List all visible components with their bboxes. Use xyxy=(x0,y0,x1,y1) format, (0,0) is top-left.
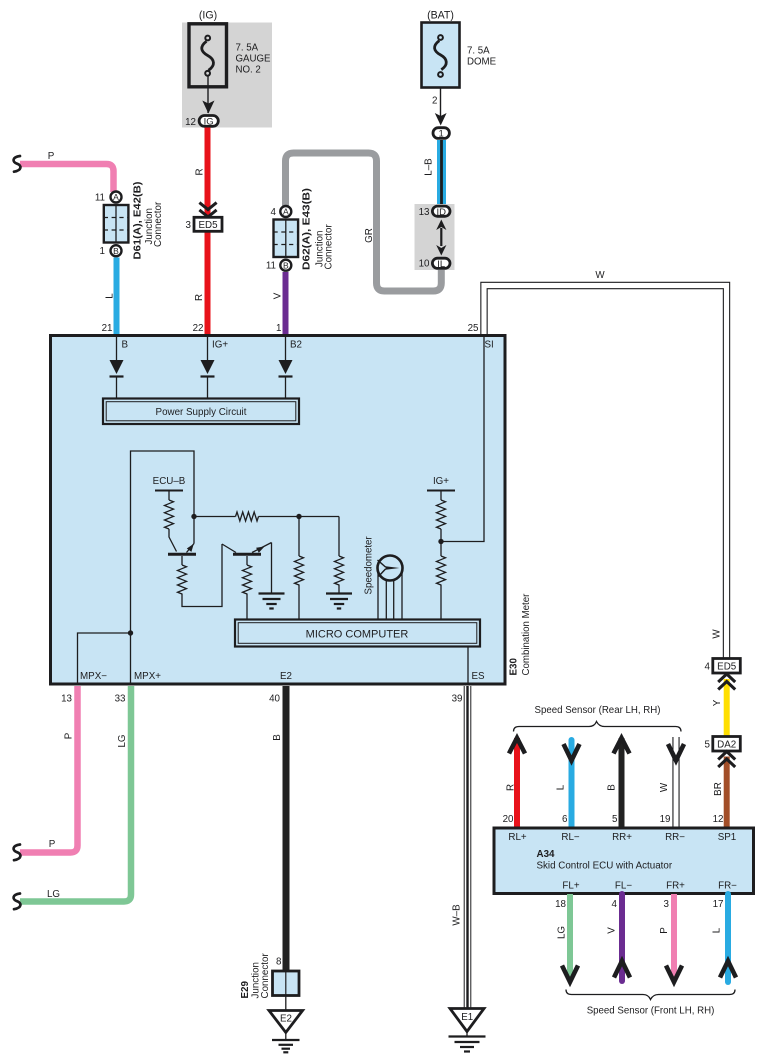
wire LG (green) sensor FL+ with down arrow xyxy=(562,894,578,982)
svg-text:18: 18 xyxy=(555,899,566,910)
svg-text:P: P xyxy=(49,839,56,850)
svg-text:SI: SI xyxy=(485,340,494,351)
svg-text:V: V xyxy=(607,927,618,934)
svg-text:GAUGE: GAUGE xyxy=(236,54,272,65)
svg-text:Combination Meter: Combination Meter xyxy=(521,593,532,676)
svg-text:LG: LG xyxy=(47,889,60,900)
wire GR (gray) from IL to junction connector D62 pin A xyxy=(286,153,442,291)
brace rear sensors xyxy=(514,722,682,732)
svg-text:D61(A), E42(B): D61(A), E42(B) xyxy=(133,182,144,260)
svg-text:Connector: Connector xyxy=(153,201,164,247)
svg-text:W–B: W–B xyxy=(452,904,463,926)
svg-text:A34: A34 xyxy=(537,849,556,860)
svg-text:E2: E2 xyxy=(280,1014,292,1025)
wire L (blue) sensor RL- with down arrow xyxy=(564,740,580,828)
ground E1 xyxy=(449,1009,486,1052)
node junction dot R4 right xyxy=(296,514,301,519)
svg-text:39: 39 xyxy=(452,694,463,705)
svg-text:4: 4 xyxy=(271,207,277,218)
svg-text:DA2: DA2 xyxy=(717,740,736,751)
wire L (blue) D61 pin B to E30 pin 21 xyxy=(114,258,120,336)
svg-text:ECU–B: ECU–B xyxy=(153,476,186,487)
resistor R7 (IG+ upper) xyxy=(437,500,446,556)
svg-text:B: B xyxy=(607,784,618,791)
svg-text:FR+: FR+ xyxy=(666,881,685,892)
ground G2 xyxy=(326,594,352,609)
svg-text:Speedometer: Speedometer xyxy=(364,536,375,595)
label D62(A), E43(B) Junction Connector xyxy=(302,188,335,270)
svg-text:LG: LG xyxy=(117,734,128,747)
transistor Q1 xyxy=(168,529,196,554)
svg-text:IG+: IG+ xyxy=(212,340,228,351)
fuse background (IG) gray panel xyxy=(182,23,272,128)
wire MPX- internal xyxy=(78,633,131,683)
svg-text:NO. 2: NO. 2 xyxy=(236,65,261,76)
wire B (black) E2 pin 40 to E29 xyxy=(283,686,290,970)
wire L-B (blue-black) terminal 1 to ID xyxy=(437,140,446,206)
svg-text:FL−: FL− xyxy=(615,881,632,892)
wire ES internal xyxy=(467,647,469,684)
svg-text:MPX−: MPX− xyxy=(80,671,107,682)
resistor R2 (Q1 base) xyxy=(178,556,187,594)
brace front sensors xyxy=(566,990,735,1000)
double arrow between ID and IL xyxy=(436,220,446,256)
svg-text:13: 13 xyxy=(419,207,430,218)
svg-text:MICRO COMPUTER: MICRO COMPUTER xyxy=(306,629,409,641)
svg-text:8: 8 xyxy=(276,957,282,968)
svg-text:7. 5A: 7. 5A xyxy=(236,43,259,54)
svg-text:11: 11 xyxy=(266,261,276,272)
svg-text:2: 2 xyxy=(432,96,437,107)
fuse F1 GAUGE NO.2 xyxy=(189,24,227,87)
terminal oval ID pin 13 xyxy=(419,206,450,218)
ground G1 xyxy=(259,594,285,609)
svg-text:33: 33 xyxy=(115,694,126,705)
svg-text:D62(A), E43(B): D62(A), E43(B) xyxy=(302,188,313,270)
svg-text:R: R xyxy=(195,168,206,175)
svg-text:5: 5 xyxy=(612,814,618,825)
svg-text:B: B xyxy=(113,246,119,256)
speedometer gauge symbol xyxy=(378,556,403,621)
svg-text:19: 19 xyxy=(660,814,671,825)
resistor R5 to micro computer xyxy=(295,517,304,621)
svg-text:6: 6 xyxy=(562,814,568,825)
resistor R4 horizontal xyxy=(194,512,299,521)
svg-text:11: 11 xyxy=(95,193,105,204)
svg-text:3: 3 xyxy=(664,899,670,910)
wire Y (yellow) ED5 to DA2 xyxy=(724,679,730,738)
wire Q2 emitter to ground xyxy=(271,543,273,594)
svg-text:Y: Y xyxy=(712,699,723,706)
svg-text:W: W xyxy=(595,270,605,281)
svg-text:B2: B2 xyxy=(290,340,302,351)
svg-text:4: 4 xyxy=(612,899,618,910)
micro computer box xyxy=(235,620,480,647)
svg-text:(IG): (IG) xyxy=(199,10,217,22)
ground E2 xyxy=(269,1011,303,1053)
wire L (blue) sensor FR- with up arrow xyxy=(720,894,736,982)
svg-text:SP1: SP1 xyxy=(718,832,737,843)
svg-text:E2: E2 xyxy=(280,671,292,682)
ECU-B rail xyxy=(153,476,186,500)
gray panel ID/IL xyxy=(415,204,455,270)
svg-text:RR+: RR+ xyxy=(612,832,632,843)
svg-text:12: 12 xyxy=(185,117,196,128)
junction connector D61(A) E42(B) xyxy=(95,192,129,258)
wire MPX+ internal with junction dot xyxy=(128,630,133,683)
svg-text:R: R xyxy=(506,784,517,791)
svg-text:RL+: RL+ xyxy=(508,832,527,843)
svg-text:13: 13 xyxy=(61,694,72,705)
connector ED5 pin 3 chevrons xyxy=(199,203,216,217)
svg-text:1: 1 xyxy=(100,246,105,257)
wire W from E30 pin 25 to ED5 pin 4 (white, double line) xyxy=(484,286,727,661)
wire SI internal to IG+ node xyxy=(441,337,484,542)
svg-text:Speed Sensor (Front LH, RH): Speed Sensor (Front LH, RH) xyxy=(587,1006,715,1017)
svg-text:FL+: FL+ xyxy=(562,881,579,892)
wire R (red) sensor RL+ with up arrow xyxy=(509,738,525,828)
svg-text:P: P xyxy=(64,732,75,739)
svg-text:A: A xyxy=(113,192,119,202)
svg-text:Power Supply Circuit: Power Supply Circuit xyxy=(156,407,247,418)
node junction dot IG+ xyxy=(438,539,443,544)
svg-text:Connector: Connector xyxy=(324,224,335,270)
svg-text:5: 5 xyxy=(705,740,711,751)
svg-text:7. 5A: 7. 5A xyxy=(467,46,490,57)
svg-text:1: 1 xyxy=(439,129,444,140)
resistor R8 (IG+ lower) xyxy=(437,556,446,620)
resistor R1 (ECU-B) xyxy=(165,500,174,529)
terminal oval IG pin 12 xyxy=(185,116,218,128)
wire fuse F2 pin 2 with arrow xyxy=(432,88,447,126)
svg-text:DOME: DOME xyxy=(467,57,497,68)
skid control ECU A34 box xyxy=(494,828,754,894)
svg-text:12: 12 xyxy=(713,814,724,825)
svg-text:ES: ES xyxy=(472,671,486,682)
svg-text:GR: GR xyxy=(364,228,375,243)
svg-text:V: V xyxy=(273,292,284,299)
svg-text:Skid Control ECU with Actuator: Skid Control ECU with Actuator xyxy=(537,861,673,872)
svg-text:3: 3 xyxy=(186,220,192,231)
diode D3 with leads xyxy=(279,337,293,399)
wire LG (green) MPX+ with cut mark xyxy=(14,686,131,909)
terminal oval 1 xyxy=(433,128,449,140)
svg-text:P: P xyxy=(48,151,55,162)
chevrons below ED5 pin 4 xyxy=(718,674,735,690)
chevrons below DA2 pin 5 xyxy=(718,752,735,768)
svg-text:IG: IG xyxy=(204,116,214,127)
connector ED5 pin 3 box xyxy=(186,217,222,231)
svg-text:17: 17 xyxy=(713,899,724,910)
power supply circuit box xyxy=(103,399,299,425)
svg-text:40: 40 xyxy=(269,694,280,705)
wire W (white) sensor RR- with down arrow xyxy=(668,737,684,828)
svg-text:ED5: ED5 xyxy=(198,220,218,231)
svg-text:W: W xyxy=(712,629,723,639)
wire W-B (white-black) ES pin 39 to E1 xyxy=(464,686,472,1008)
svg-text:B: B xyxy=(122,340,129,351)
connector ED5 pin 4 box xyxy=(705,659,741,674)
wire V (violet) D62 pin B to E30 pin 1 xyxy=(283,272,289,335)
wire P (pink) sensor FR+ with down arrow xyxy=(666,894,682,982)
svg-text:IL: IL xyxy=(437,259,445,270)
diode D2 with leads xyxy=(201,337,215,399)
svg-text:ID: ID xyxy=(436,207,446,218)
resistor R6 to ground xyxy=(299,517,344,594)
svg-text:E29: E29 xyxy=(240,981,251,999)
svg-text:RR−: RR− xyxy=(665,832,685,843)
svg-text:22: 22 xyxy=(193,323,204,334)
svg-text:A: A xyxy=(283,207,289,217)
svg-text:(BAT): (BAT) xyxy=(427,10,454,22)
svg-text:B: B xyxy=(283,260,289,270)
wire Q1 base to Q2 collector xyxy=(182,544,222,607)
svg-text:IG+: IG+ xyxy=(433,476,449,487)
junction connector D62(A) E43(B) xyxy=(266,206,298,272)
svg-text:RL−: RL− xyxy=(561,832,580,843)
svg-text:21: 21 xyxy=(102,323,113,334)
IG+ rail internal xyxy=(427,476,455,500)
svg-text:B: B xyxy=(272,734,283,741)
wire BR (brown) DA2 to A34 pin 12 xyxy=(724,757,730,830)
svg-text:W: W xyxy=(659,782,670,792)
label D61(A), E42(B) Junction Connector xyxy=(133,182,165,260)
transistor Q2 xyxy=(222,543,272,555)
svg-text:10: 10 xyxy=(419,259,430,270)
junction connector E29 xyxy=(273,971,300,996)
svg-text:E30: E30 xyxy=(509,658,520,676)
wire E29 to ground E2 xyxy=(285,996,287,1011)
svg-text:L–B: L–B xyxy=(424,158,435,176)
svg-text:20: 20 xyxy=(503,814,514,825)
fuse F2 value text 7.5A DOME xyxy=(467,46,497,68)
diode D1 with leads xyxy=(110,337,124,399)
svg-text:L: L xyxy=(556,784,567,790)
wire B (black) sensor RR+ with up arrow xyxy=(614,738,630,828)
fuse F2 DOME xyxy=(422,23,460,88)
svg-text:ED5: ED5 xyxy=(717,662,737,673)
svg-text:Connector: Connector xyxy=(260,953,271,999)
combination meter E30 box xyxy=(51,336,506,685)
label E29 Junction Connector xyxy=(240,953,271,999)
svg-text:BR: BR xyxy=(713,782,724,796)
svg-text:L: L xyxy=(712,927,723,933)
svg-text:FR−: FR− xyxy=(718,881,737,892)
resistor R3 (Q2 base) xyxy=(243,556,252,620)
wire P (pink) with cut mark to D61 pin A xyxy=(14,156,114,192)
svg-text:MPX+: MPX+ xyxy=(134,671,161,682)
svg-text:1: 1 xyxy=(276,323,281,334)
label E30 Combination Meter xyxy=(509,593,533,676)
svg-text:Speed Sensor (Rear LH, RH): Speed Sensor (Rear LH, RH) xyxy=(535,705,661,716)
svg-text:LG: LG xyxy=(557,926,568,939)
svg-text:E1: E1 xyxy=(461,1012,473,1023)
svg-text:P: P xyxy=(659,927,670,934)
wire P (pink) MPX- with cut mark xyxy=(14,686,78,860)
terminal oval IL pin 10 xyxy=(419,258,450,270)
svg-text:25: 25 xyxy=(468,323,479,334)
wire MPX riser to transistor network xyxy=(131,451,195,633)
wire fuse F1 to terminal IG with arrow xyxy=(202,76,214,114)
svg-text:R: R xyxy=(194,294,205,301)
svg-text:4: 4 xyxy=(705,662,711,673)
connector DA2 pin 5 box xyxy=(705,737,741,752)
fuse F1 value text 7.5A GAUGE NO.2 xyxy=(236,43,272,76)
node junction dot at base network xyxy=(191,514,196,519)
svg-text:L: L xyxy=(105,293,116,299)
wire R (red) from IG terminal to E30 pin 22 xyxy=(205,128,211,336)
wire V (violet) sensor FL- with up arrow xyxy=(614,894,630,981)
